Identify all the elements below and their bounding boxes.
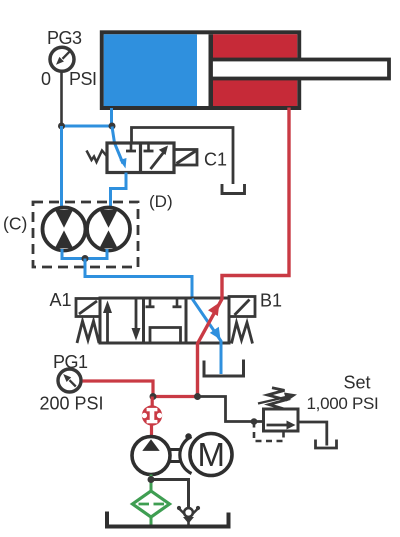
pilot line (dashed) — [254, 422, 284, 442]
wire: valve C1 drain to tank T1 — [132, 128, 234, 185]
wire: valve C1 out to divider motor D — [111, 173, 127, 208]
left box down arrow — [135, 298, 138, 333]
shaft — [168, 448, 182, 451]
wire: node J1 down to divider motor C — [60, 126, 63, 208]
spring (valve C1, left) — [87, 151, 108, 163]
svg-text:PG3: PG3 — [47, 28, 82, 48]
svg-text:M: M — [198, 436, 226, 473]
gauge PG3 — [41, 28, 97, 89]
node J6 — [148, 476, 155, 483]
node J2 (cylinder port junction) — [109, 123, 116, 130]
blocked port stub right box — [147, 143, 150, 150]
node J5 — [194, 393, 201, 400]
filter F1 — [133, 491, 170, 517]
svg-text:C1: C1 — [204, 150, 227, 170]
breather B — [177, 506, 200, 526]
svg-text:0: 0 — [41, 69, 51, 89]
wire: node J6 to breather — [151, 480, 189, 508]
svg-text:B1: B1 — [260, 291, 282, 311]
svg-text:(C): (C) — [3, 214, 27, 234]
blocked port stub left box — [130, 143, 133, 150]
solenoid C1 — [174, 150, 197, 166]
valve C1 body — [107, 143, 174, 173]
motor D (right divider element) — [87, 208, 130, 251]
wire: pump suction (green) — [150, 475, 153, 493]
node J1 (gauge/header junction) — [58, 123, 65, 130]
node J3 — [82, 255, 89, 262]
node J4 — [150, 393, 157, 400]
wire: PG3 gauge stem down to node — [60, 71, 63, 126]
svg-text:A1: A1 — [50, 290, 72, 310]
wire: node J4 to node J5 (red) — [153, 395, 198, 398]
flow path red: pump to cylinder rod end — [198, 108, 290, 397]
tank T1 — [222, 184, 245, 194]
wire: flow meter to pump (red) — [150, 425, 153, 438]
coupling — [180, 437, 192, 474]
svg-text:1,000 PSI: 1,000 PSI — [307, 394, 379, 413]
flow meter FM1 — [142, 405, 163, 425]
wire: node J4 down to flow meter — [151, 397, 154, 408]
wire: node J3 to 4-way valve inlet (blue) — [85, 259, 192, 300]
solenoid A1 — [76, 299, 100, 317]
cylinder (double-acting, cap end blue / rod end red) — [102, 32, 389, 108]
pump P1 — [132, 437, 170, 475]
svg-text:(D): (D) — [149, 192, 173, 211]
tank T3 — [316, 440, 337, 449]
relief spring — [268, 388, 287, 409]
gauge PG1 — [40, 352, 104, 414]
reservoir tank — [107, 512, 229, 527]
node J7 (pilot tap) — [251, 418, 258, 425]
flow path blue: valve crossing to tank T2 — [192, 299, 221, 375]
spring B1 side — [232, 323, 253, 344]
motor C (left divider element) — [43, 208, 86, 251]
relief valve RV1 — [264, 409, 299, 431]
svg-text:Set: Set — [344, 373, 371, 393]
wire: blue header between nodes — [62, 125, 113, 128]
wire: node J5 to relief valve inlet — [198, 397, 264, 422]
wire: divider bottoms to node J3 — [62, 249, 107, 259]
tank T2 — [204, 360, 244, 377]
wire: PG1 to node J4 (red) — [83, 381, 154, 397]
spring A1 side — [77, 321, 99, 343]
flow divider enclosure (dashed) — [33, 202, 138, 267]
electric motor M1 — [190, 434, 232, 476]
valve V1 (4/3 directional) body — [100, 298, 229, 343]
relief adjust arrow — [258, 397, 286, 404]
wire: filter to tank (green) — [150, 517, 153, 528]
centre box gallery — [150, 328, 181, 344]
centre box blocked stubs — [149, 298, 152, 306]
svg-text:200 PSI: 200 PSI — [40, 394, 104, 414]
solenoid B1 — [229, 297, 255, 317]
wire: node J2 into valve C1 (blue flow arrow) — [112, 127, 123, 164]
wire: cylinder cap-end port (blue) — [110, 108, 113, 126]
wire: relief outlet to tank T3 — [298, 422, 327, 446]
svg-text:PSI: PSI — [69, 69, 97, 89]
right box flow arrow — [151, 153, 164, 170]
left box up arrow — [106, 308, 109, 343]
